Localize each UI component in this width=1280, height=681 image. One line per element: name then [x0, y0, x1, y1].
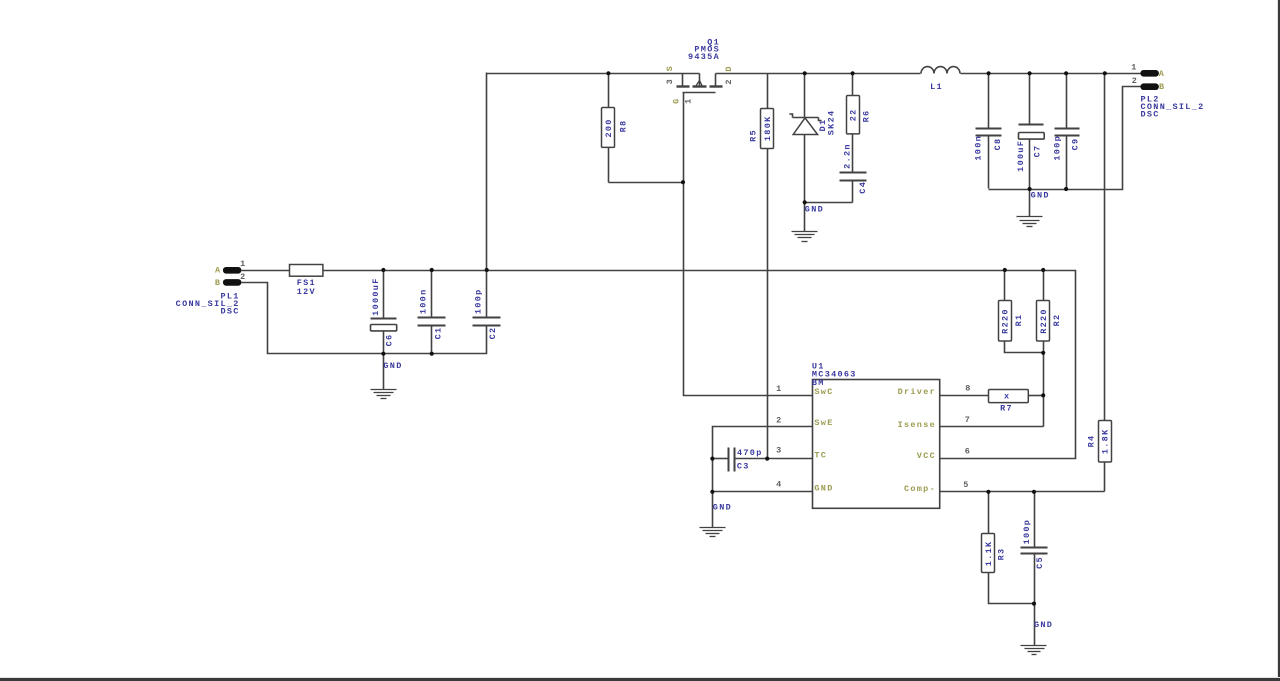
- svg-text:VCC: VCC: [917, 451, 936, 461]
- svg-text:GND: GND: [713, 503, 732, 513]
- svg-text:C9: C9: [1071, 138, 1081, 151]
- svg-text:GND: GND: [814, 484, 833, 494]
- svg-text:B: B: [215, 278, 221, 288]
- svg-text:C6: C6: [385, 334, 395, 347]
- svg-text:D: D: [724, 65, 734, 71]
- svg-text:12V: 12V: [297, 287, 316, 297]
- svg-text:A: A: [215, 266, 221, 276]
- svg-text:C2: C2: [488, 327, 498, 340]
- svg-text:C7: C7: [1033, 145, 1043, 158]
- svg-text:3: 3: [776, 445, 782, 455]
- svg-text:100n: 100n: [974, 135, 984, 161]
- svg-text:GND: GND: [1031, 190, 1050, 200]
- svg-text:C5: C5: [1035, 556, 1045, 569]
- svg-text:x: x: [1004, 391, 1010, 401]
- svg-text:4: 4: [776, 479, 782, 489]
- svg-text:180K: 180K: [763, 115, 773, 141]
- svg-text:C4: C4: [858, 181, 868, 194]
- svg-text:2: 2: [240, 272, 246, 282]
- svg-text:1000uF: 1000uF: [371, 277, 381, 315]
- svg-text:8: 8: [965, 383, 971, 393]
- svg-text:C1: C1: [434, 327, 444, 340]
- svg-text:GND: GND: [383, 361, 402, 371]
- svg-text:L1: L1: [930, 82, 943, 92]
- svg-text:100p: 100p: [1022, 519, 1032, 545]
- svg-text:SwE: SwE: [814, 418, 833, 428]
- svg-text:R220: R220: [1000, 308, 1010, 334]
- svg-text:100n: 100n: [418, 288, 428, 314]
- svg-text:100uF: 100uF: [1016, 140, 1026, 172]
- svg-text:R3: R3: [997, 548, 1007, 561]
- svg-text:1: 1: [684, 97, 694, 103]
- svg-text:C3: C3: [737, 462, 750, 472]
- svg-text:Driver: Driver: [898, 387, 936, 397]
- svg-text:GND: GND: [805, 205, 824, 215]
- svg-text:R8: R8: [618, 120, 628, 133]
- svg-text:2: 2: [776, 416, 782, 426]
- svg-text:1: 1: [776, 384, 782, 394]
- svg-text:5: 5: [963, 480, 969, 490]
- svg-text:SwC: SwC: [814, 387, 833, 397]
- svg-text:C8: C8: [993, 138, 1003, 151]
- svg-text:R5: R5: [749, 129, 759, 142]
- svg-text:1.1K: 1.1K: [984, 541, 994, 567]
- svg-text:G: G: [672, 97, 682, 103]
- svg-text:B: B: [1159, 82, 1165, 92]
- svg-text:Isense: Isense: [898, 420, 936, 430]
- svg-text:Comp-: Comp-: [904, 484, 936, 494]
- svg-text:A: A: [1159, 69, 1165, 79]
- svg-text:SK24: SK24: [826, 110, 836, 136]
- svg-text:22: 22: [849, 108, 859, 121]
- svg-text:TC: TC: [814, 451, 827, 461]
- svg-text:2: 2: [1132, 76, 1138, 86]
- svg-text:S: S: [665, 65, 675, 71]
- svg-text:470p: 470p: [737, 448, 763, 458]
- svg-text:6: 6: [965, 446, 971, 456]
- svg-text:R1: R1: [1014, 314, 1024, 327]
- svg-text:2.2n: 2.2n: [843, 143, 853, 169]
- svg-text:1: 1: [240, 259, 246, 269]
- svg-text:DSC: DSC: [220, 307, 239, 317]
- svg-text:100p: 100p: [473, 288, 483, 314]
- svg-text:3: 3: [665, 78, 675, 84]
- svg-text:200: 200: [604, 118, 614, 137]
- svg-text:9435A: 9435A: [688, 52, 720, 62]
- svg-text:R220: R220: [1039, 308, 1049, 334]
- svg-text:R2: R2: [1052, 314, 1062, 327]
- svg-text:2: 2: [724, 78, 734, 84]
- svg-text:1: 1: [1131, 62, 1137, 72]
- svg-text:1.8K: 1.8K: [1100, 428, 1110, 454]
- svg-text:100p: 100p: [1052, 135, 1062, 161]
- svg-text:7: 7: [965, 415, 971, 425]
- svg-text:DSC: DSC: [1141, 110, 1160, 120]
- svg-text:R7: R7: [1000, 404, 1013, 414]
- svg-text:R4: R4: [1087, 435, 1097, 448]
- svg-text:GND: GND: [1034, 620, 1053, 630]
- svg-text:R6: R6: [862, 110, 872, 123]
